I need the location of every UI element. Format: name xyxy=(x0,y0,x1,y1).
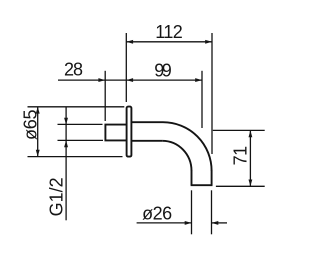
thread label G1/2 xyxy=(46,177,66,216)
svg-text:28: 28 xyxy=(64,60,83,80)
dimension line ø65 xyxy=(36,107,40,157)
spout bend outer arc xyxy=(163,122,212,171)
svg-text:71: 71 xyxy=(230,146,250,166)
extension line nipple bottom (for G1/2) xyxy=(58,139,104,141)
dimension text 71 xyxy=(230,146,250,166)
wall nipple G1/2 thread body xyxy=(105,125,126,141)
wall flange (escutcheon, ø65) xyxy=(127,107,132,157)
svg-text:99: 99 xyxy=(154,61,172,81)
dimension text 112 xyxy=(155,22,183,42)
dimension text ø65 xyxy=(21,109,41,140)
outlet left edge xyxy=(191,170,193,185)
dimension text 99 xyxy=(154,61,172,81)
extension line at nipple end x=105 xyxy=(104,71,106,121)
extension line flange bottom xyxy=(28,156,123,158)
svg-text:112: 112 xyxy=(155,22,183,42)
dimension line 71 xyxy=(249,130,253,186)
extension line outlet face right xyxy=(216,185,265,187)
extension line outlet left x=191 xyxy=(191,190,193,234)
svg-text:ø65: ø65 xyxy=(21,109,41,140)
extension line spout axis level right xyxy=(213,129,265,131)
dimension line ø26 left part xyxy=(137,221,192,225)
outlet end face (ø26) xyxy=(191,184,213,186)
dimension line 112 xyxy=(126,40,212,44)
extension line at wall face x=126 xyxy=(125,33,127,102)
extension line at outlet axis x=202 xyxy=(201,71,203,128)
extension line outlet right x=211 xyxy=(211,190,213,234)
spout bend inner arc xyxy=(162,141,191,171)
extension line flange top xyxy=(28,106,125,108)
spout tube bottom line xyxy=(131,140,162,142)
dimension text 28 xyxy=(64,60,83,80)
G1/2 leader line xyxy=(64,107,68,221)
outlet right edge xyxy=(211,170,213,185)
extension line at spout outer edge x=212 xyxy=(211,33,213,154)
svg-text:ø26: ø26 xyxy=(142,203,172,223)
dimension line 28 / 99 xyxy=(58,78,202,82)
dimension line ø26 right part xyxy=(212,221,228,225)
spout tube top line xyxy=(131,121,163,123)
extension line nipple top (for G1/2) xyxy=(58,123,103,125)
svg-text:G1/2: G1/2 xyxy=(46,177,66,216)
dimension text ø26 xyxy=(142,203,172,223)
